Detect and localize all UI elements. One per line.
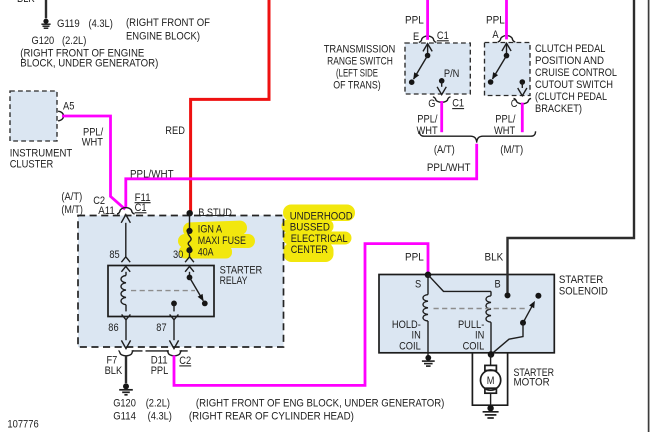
connector terminal F7 cup: [119, 351, 134, 356]
svg-text:30: 30: [173, 249, 183, 261]
node B STUD: [187, 210, 193, 216]
B STUD underline: [198, 215, 232, 217]
solenoid pull-in coil: [490, 291, 492, 295]
solenoid switch contact: [535, 293, 541, 299]
wire PPL/WHT from instrument cluster A5: [62, 116, 125, 209]
svg-text:(4.3L): (4.3L): [89, 18, 113, 30]
solenoid armature dashed link: [434, 308, 527, 310]
svg-text:G120: G120: [113, 397, 136, 409]
svg-text:C1: C1: [135, 202, 147, 214]
wire PPL into clutch switch A: [505, 0, 508, 39]
svg-text:(A/T): (A/T): [434, 144, 455, 156]
solenoid hold-in coil: [427, 275, 429, 295]
wire PPL into trans range switch E: [426, 0, 429, 40]
wire BLK from F7 to ground: [125, 356, 127, 384]
svg-text:RELAY: RELAY: [220, 275, 248, 287]
svg-text:POSITION AND: POSITION AND: [535, 55, 604, 67]
svg-text:G114: G114: [113, 410, 136, 422]
svg-text:BRACKET): BRACKET): [535, 103, 582, 115]
svg-text:PPL: PPL: [405, 251, 424, 263]
relay armature dashed link: [131, 290, 195, 292]
svg-text:A5: A5: [63, 100, 74, 112]
svg-text:BLK: BLK: [485, 251, 504, 263]
svg-text:PPL/: PPL/: [417, 114, 438, 126]
svg-text:MAXI FUSE: MAXI FUSE: [198, 235, 246, 247]
svg-text:PPL/: PPL/: [495, 114, 516, 126]
svg-text:(4.3L): (4.3L): [148, 410, 172, 422]
connector terminal A5 arc: [58, 111, 63, 121]
wire PPL/WHT below G: [440, 101, 443, 132]
connector terminal A arc: [498, 36, 516, 42]
svg-text:40A: 40A: [198, 247, 214, 259]
svg-text:B STUD: B STUD: [198, 207, 232, 219]
wire S to pull-in coil: [428, 275, 491, 292]
node B terminal: [506, 273, 508, 293]
svg-text:(M/T): (M/T): [500, 144, 523, 156]
underhood bussed electrical center dashed outline: [78, 216, 284, 348]
svg-text:E: E: [413, 31, 419, 43]
svg-text:IGN A: IGN A: [198, 224, 223, 236]
starter solenoid box: [379, 275, 554, 353]
relay pin 87 contact: [171, 301, 177, 307]
ground G120/G114 (engine block): [123, 383, 129, 389]
svg-text:BUSSED: BUSSED: [290, 221, 330, 233]
starter relay box: [108, 266, 214, 317]
wire RED from battery feed to B STUD: [191, 0, 269, 212]
svg-text:ENGINE BLOCK): ENGINE BLOCK): [126, 30, 200, 42]
svg-text:G120: G120: [32, 35, 55, 47]
ground G119/G120 (engine block): [43, 19, 48, 24]
svg-text:(RIGHT FRONT OF ENG BLOCK, UND: (RIGHT FRONT OF ENG BLOCK, UNDER GENERAT…: [196, 397, 445, 409]
svg-text:C1: C1: [452, 98, 464, 110]
svg-text:(LEFT SIDE: (LEFT SIDE: [336, 68, 378, 80]
svg-text:86: 86: [108, 322, 118, 334]
highlight UNDERHOOD BUSSED ELECTRICAL CENTER: [282, 205, 356, 263]
svg-text:(M/T): (M/T): [61, 204, 83, 216]
svg-text:TRANSMISSION: TRANSMISSION: [324, 44, 396, 56]
wire BLK from battery to starter solenoid B: [508, 0, 635, 273]
svg-text:(CLUTCH PEDAL: (CLUTCH PEDAL: [535, 91, 607, 103]
svg-text:PPL: PPL: [486, 14, 505, 26]
svg-text:BLK: BLK: [105, 365, 123, 377]
svg-text:C: C: [511, 98, 518, 110]
trans switch lever: [423, 44, 432, 52]
ground below hold-in coil: [427, 353, 429, 355]
clutch pedal position switch box: [485, 43, 531, 96]
wire terminal 85 line into relay: [125, 223, 127, 257]
svg-text:WHT: WHT: [494, 125, 515, 137]
wire BLK to ground G119/G120: [45, 0, 47, 18]
svg-text:(A/T): (A/T): [61, 191, 82, 203]
connector row C2 below fuse block: [132, 350, 188, 352]
relay pin 86 exit arrows: [122, 314, 131, 319]
svg-text:CENTER: CENTER: [291, 244, 328, 256]
transmission range switch box: [405, 43, 470, 94]
svg-text:PPL: PPL: [151, 365, 169, 377]
svg-text:(RIGHT REAR OF CYLINDER HEAD): (RIGHT REAR OF CYLINDER HEAD): [189, 410, 354, 422]
svg-text:PPL/WHT: PPL/WHT: [130, 168, 174, 180]
svg-text:WHT: WHT: [82, 137, 103, 149]
svg-text:(2.2L): (2.2L): [62, 35, 86, 47]
svg-text:A11: A11: [98, 205, 115, 217]
svg-text:(2.2L): (2.2L): [146, 397, 170, 409]
svg-text:87: 87: [156, 322, 166, 334]
brace joining A/T and M/T circuits: [419, 131, 535, 142]
svg-text:RANGE SWITCH: RANGE SWITCH: [327, 56, 393, 68]
svg-text:COIL: COIL: [463, 340, 485, 352]
wire PPL/WHT below C: [521, 103, 524, 133]
svg-text:RED: RED: [165, 125, 185, 137]
svg-text:CRUISE CONTROL: CRUISE CONTROL: [535, 67, 617, 79]
fuse F11 IGN A MAXI FUSE 40A: [186, 228, 192, 234]
wire PPL/WHT from A/T-M/T brace to fuse block F11/C1: [126, 144, 477, 208]
svg-text:COIL: COIL: [399, 340, 421, 352]
svg-text:PPL/WHT: PPL/WHT: [427, 162, 471, 174]
svg-text:85: 85: [109, 249, 119, 261]
svg-text:A: A: [492, 29, 499, 41]
svg-text:G: G: [428, 98, 435, 110]
svg-text:CLUTCH PEDAL: CLUTCH PEDAL: [535, 43, 605, 55]
wire PPL from D11 to starter solenoid S terminal: [174, 244, 428, 386]
connector terminal D11 cup: [167, 351, 182, 356]
svg-text:STARTER: STARTER: [559, 274, 603, 286]
svg-text:C1: C1: [437, 30, 449, 42]
underhood bussed electrical center box: [78, 216, 284, 348]
svg-text:CUTOUT SWITCH: CUTOUT SWITCH: [535, 79, 613, 91]
svg-text:SOLENOID: SOLENOID: [559, 285, 608, 297]
relay coil: [125, 272, 127, 276]
svg-text:BLOCK, UNDER GENERATOR): BLOCK, UNDER GENERATOR): [20, 58, 158, 70]
svg-text:107776: 107776: [7, 418, 38, 430]
svg-text:P/N: P/N: [444, 68, 460, 80]
clutch switch C contact: [520, 79, 526, 85]
svg-text:M: M: [487, 375, 495, 387]
connector terminal G arc: [433, 97, 451, 102]
connector terminal C arc: [514, 99, 532, 104]
wire fuse to relay pin 30: [189, 250, 191, 257]
highlight IGN A MAXI FUSE 40A: [178, 220, 255, 258]
diagram right border frame: [648, 0, 650, 432]
svg-text:G119: G119: [57, 18, 80, 30]
node S terminal: [425, 272, 432, 279]
ground below starter motor: [487, 405, 493, 411]
svg-text:B: B: [495, 279, 501, 291]
svg-text:MOTOR: MOTOR: [514, 377, 550, 389]
connector terminal E arc: [419, 36, 437, 42]
svg-text:C2: C2: [179, 355, 191, 367]
svg-text:BLK: BLK: [17, 0, 35, 5]
svg-text:(RIGHT FRONT OF: (RIGHT FRONT OF: [126, 17, 210, 29]
clutch switch lever: [502, 43, 511, 51]
svg-text:PPL: PPL: [405, 14, 424, 26]
svg-text:WHT: WHT: [417, 125, 438, 137]
svg-text:CLUSTER: CLUSTER: [10, 158, 54, 170]
starter motor housing loop: [472, 353, 507, 405]
connector terminal C2 A11 / F11 C1 into fuse block: [117, 208, 135, 214]
node pull-in coil / motor junction: [488, 351, 495, 358]
instrument cluster box: [10, 91, 57, 141]
wire B STUD to fuse: [189, 213, 191, 230]
starter motor M1: [490, 354, 492, 365]
trans switch P/N contact: [439, 78, 445, 84]
relay switch contact: [187, 275, 193, 281]
svg-text:OF TRANS): OF TRANS): [333, 79, 380, 91]
svg-text:S: S: [415, 279, 421, 291]
